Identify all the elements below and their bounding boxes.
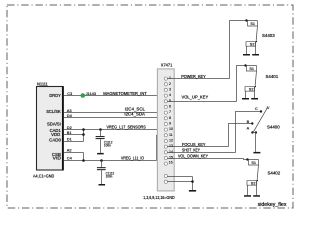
svg-text:A4,C1=GND: A4,C1=GND [33, 174, 54, 179]
svg-text:C4: C4 [67, 156, 73, 161]
svg-text:B: B [247, 120, 250, 124]
wire FOCUS_KEY : pin 13 to S4400 B [167, 124, 252, 148]
svg-text:11: 11 [169, 133, 173, 137]
svg-text:6: 6 [169, 105, 171, 109]
switch S4401 (VOL_UP) [245, 65, 257, 67]
svg-text:S4403: S4403 [262, 33, 275, 38]
svg-text:B1: B1 [67, 130, 72, 135]
svg-text:5: 5 [169, 99, 171, 103]
node J1143 (test point) [81, 91, 97, 98]
connector X7471 [143, 62, 174, 200]
svg-text:8: 8 [169, 116, 171, 120]
svg-text:A2: A2 [67, 148, 72, 153]
wire VOL_DOWN_KEY : pin 15 to S4402 [167, 153, 247, 159]
wire SHOT_KEY : pin 14 to S4400 C [167, 112, 261, 153]
junction dots on VREG_L11_IO [82, 159, 103, 162]
svg-text:S1: S1 [250, 22, 255, 26]
svg-text:I2C4_SDA: I2C4_SDA [124, 112, 145, 117]
svg-text:VREG_L11_IO: VREG_L11_IO [121, 156, 145, 161]
svg-text:N1111: N1111 [37, 81, 48, 86]
pin name CSB [52, 152, 61, 157]
wire VREG_L11_IO : IC pin C4 to X7471 pin 11 [63, 135, 164, 160]
svg-text:VOL_UP_KEY: VOL_UP_KEY [182, 95, 209, 100]
svg-text:12: 12 [169, 139, 173, 143]
svg-text:S1: S1 [251, 161, 256, 165]
svg-text:X7471: X7471 [161, 62, 173, 67]
ground for S4400 [253, 152, 260, 154]
switch S4403 (POWER) [246, 20, 258, 22]
wire IC pin B1 stub to VREG_L17_SENSORS [63, 130, 83, 135]
pin name SCL/SK [46, 109, 61, 114]
magnetometer IC N1111 [33, 81, 63, 178]
label sidekey_flex [258, 202, 287, 208]
ground for S4403 [243, 54, 250, 56]
svg-text:1,3,6,9,12,16=GND: 1,3,6,9,12,16=GND [143, 195, 174, 200]
svg-text:14: 14 [169, 150, 173, 154]
svg-text:SDA/SI: SDA/SI [47, 122, 61, 127]
ground for S4401 [242, 98, 249, 100]
svg-text:FOCUS_KEY: FOCUS_KEY [182, 142, 206, 147]
svg-text:16: 16 [169, 160, 173, 164]
wire VOL_UP_KEY : pin 5 to S4401 [167, 66, 245, 102]
svg-text:DRDY: DRDY [49, 93, 61, 98]
svg-text:VDD: VDD [51, 132, 60, 137]
svg-text:SCL/SK: SCL/SK [46, 109, 61, 114]
ground for S4402 [244, 195, 251, 197]
svg-text:10: 10 [169, 127, 173, 131]
svg-text:S4400: S4400 [267, 124, 280, 129]
svg-text:S2: S2 [250, 43, 255, 47]
wire I2C4_SDA : IC pin D4 to X7471 pin 8 [63, 112, 164, 119]
pin name CAD1 [50, 128, 62, 133]
ground for C1112 [97, 153, 104, 155]
svg-text:7: 7 [169, 110, 171, 114]
svg-text:S4402: S4402 [268, 171, 281, 176]
svg-text:J1143: J1143 [86, 91, 96, 96]
svg-text:2: 2 [169, 82, 171, 86]
svg-text:C: C [255, 107, 258, 111]
svg-text:VREG_L17_SENSORS: VREG_L17_SENSORS [107, 125, 146, 130]
wire IC pin D1 stub to VREG_L17_SENSORS [63, 130, 83, 142]
svg-text:S2: S2 [251, 182, 256, 186]
pin name VID [53, 156, 61, 161]
svg-text:CAD0: CAD0 [49, 138, 61, 143]
svg-text:S1: S1 [249, 67, 254, 71]
connector pins 1-16 circles and numbers [164, 76, 173, 183]
switch S4402 (VOL_DOWN) [247, 159, 259, 161]
svg-text:15: 15 [169, 156, 173, 160]
pin name VDD [51, 132, 60, 137]
svg-text:9: 9 [169, 122, 171, 126]
svg-text:sidekey_flex: sidekey_flex [258, 202, 287, 208]
wire POWER_KEY : pin 1 to S4403 [167, 21, 246, 80]
ground for connector shield [189, 190, 196, 192]
svg-text:D1: D1 [67, 136, 72, 141]
svg-text:D4: D4 [67, 113, 73, 118]
svg-text:A: A [247, 126, 250, 130]
wire IC pin A2 stub to VREG_L11_IO [63, 148, 83, 161]
wire I2C4_SCL : IC pin A3 to X7471 pin 7 [63, 106, 164, 113]
pin name SDA/SI [47, 122, 61, 127]
ground for C1113 [99, 184, 106, 186]
svg-text:4: 4 [169, 93, 171, 97]
junction dots on VREG_L17_SENSORS [82, 128, 102, 136]
wire connector shield pins to ground [167, 177, 194, 191]
wire MAGNETOMETER_INT : IC pin C3 to X7471 pin 4 [63, 91, 164, 96]
svg-text:100n: 100n [104, 144, 111, 148]
capacitor C1112 100n [96, 130, 113, 153]
pin name DRDY [49, 93, 61, 98]
wire VREG_L17_SENSORS : IC pin D2 to X7471 pin 10 [63, 125, 164, 130]
svg-text:VID: VID [53, 156, 61, 161]
svg-text:A3: A3 [67, 108, 72, 113]
svg-text:VOL_DOWN_KEY: VOL_DOWN_KEY [178, 153, 208, 158]
svg-text:MAGNETOMETER_INT: MAGNETOMETER_INT [103, 91, 147, 96]
svg-text:POWER_KEY: POWER_KEY [181, 74, 206, 79]
capacitor C1113 100n [97, 161, 114, 185]
svg-text:C3: C3 [67, 91, 72, 96]
svg-text:3: 3 [169, 88, 171, 92]
svg-text:S2: S2 [249, 88, 254, 92]
switch S4400 (FOCUS/SHOT) [260, 110, 262, 112]
svg-text:SHOT_KEY: SHOT_KEY [182, 148, 200, 153]
svg-text:100n: 100n [106, 175, 113, 179]
svg-text:S4401: S4401 [266, 74, 279, 79]
pin name CAD0 [49, 138, 61, 143]
